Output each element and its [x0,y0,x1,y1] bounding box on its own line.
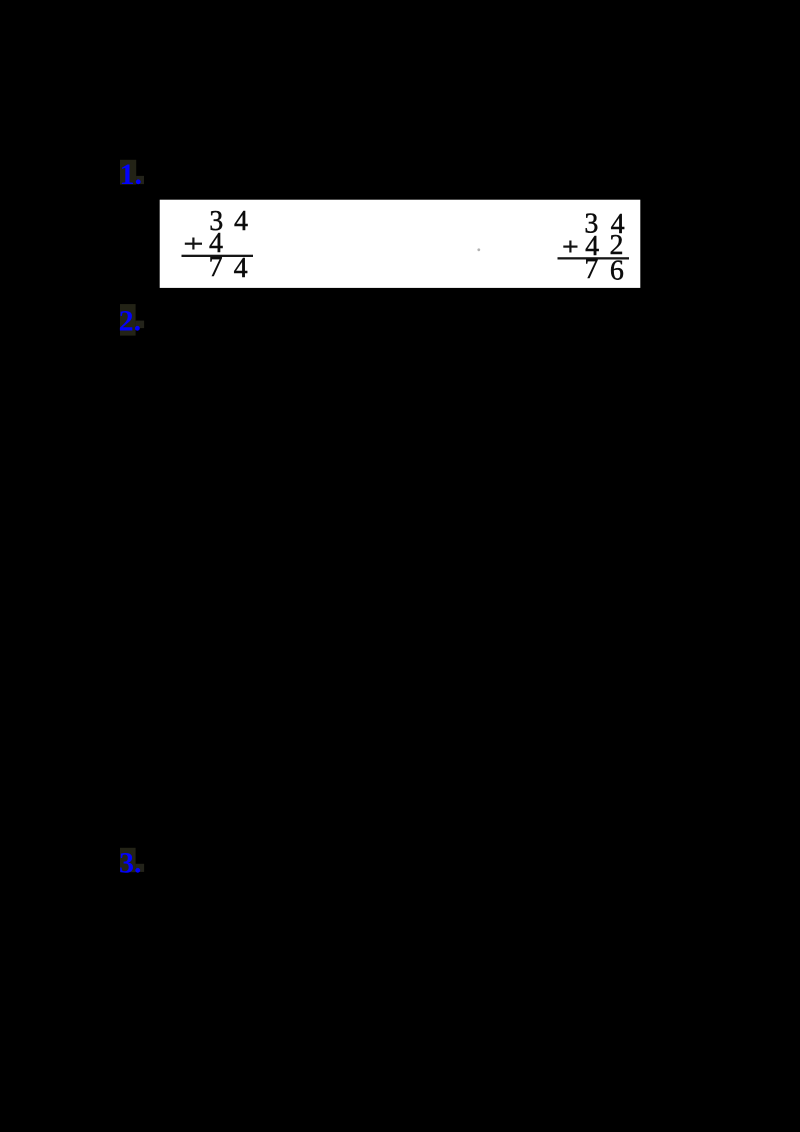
svg-text:2.: 2. [119,305,142,338]
highlight box behind item number 1 [120,160,144,185]
svg-text:4: 4 [234,253,248,284]
svg-text:6: 6 [610,255,624,286]
highlight box behind item number 2 [120,304,144,336]
svg-text:7: 7 [584,254,598,285]
highlight box behind item number 3 [120,848,144,872]
faint speck on panel [477,248,480,251]
left problem: plus sign [185,238,202,250]
svg-text:4: 4 [234,206,248,237]
left problem: sum rule [182,255,254,257]
svg-text:3.: 3. [119,846,142,879]
svg-text:1.: 1. [120,158,143,191]
right problem: plus sign [563,241,577,253]
right problem: sum rule [558,257,630,259]
svg-text:7: 7 [209,252,223,283]
white worksheet panel [160,200,641,288]
